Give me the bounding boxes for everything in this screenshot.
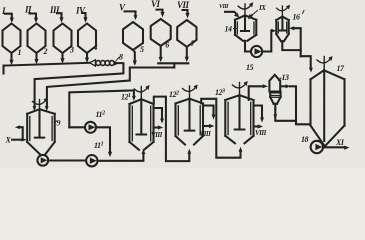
vent line of mixer 9 (15, 125, 23, 139)
wire pump15 discharge to tank 16 (262, 29, 276, 52)
agitator of reactor 12-3 (233, 81, 248, 95)
feed line IV (75, 6, 88, 23)
wire hopper6 outlet (159, 46, 163, 62)
vent VIII reactor 1 (151, 108, 164, 139)
reactor 12-1 (121, 93, 154, 150)
agitator of reactor 12-1 (134, 85, 149, 99)
wire reactor3 overflow to filter 13 (249, 84, 268, 100)
feed line VII (177, 0, 190, 18)
wire hopper2 outlet (34, 53, 38, 64)
wire reactor2 overflow to reactor3 (201, 99, 242, 158)
feed line III (49, 5, 64, 23)
wire monomer line A (33, 63, 124, 111)
wire filter bottom outlet (273, 109, 296, 121)
mixer 9 (27, 109, 60, 155)
wire collecting header (4, 63, 90, 74)
hopper 3 (54, 24, 75, 55)
vent VIII reactor 2 (200, 106, 216, 139)
wire hoppers 6-7 bar (158, 63, 188, 67)
pump 18 (301, 135, 323, 153)
feed line II (24, 5, 38, 23)
wire hopper4 outlet (85, 53, 89, 63)
wire hopper1 outlet (9, 53, 13, 65)
wire filter side outlet to tank 17 (281, 84, 311, 124)
hopper 2 (28, 24, 48, 57)
vent VIII reactor 3 (254, 106, 267, 138)
filter 13 (269, 73, 289, 109)
blend tank 17 (311, 64, 346, 146)
feed line VI (151, 0, 165, 17)
feed line I (1, 6, 14, 23)
hopper 1 (3, 24, 22, 58)
hopper 4 (78, 24, 98, 54)
wire hopper7 outlet (185, 47, 189, 62)
wire hopper5 outlet (133, 50, 137, 66)
wire hopper3 outlet (60, 53, 64, 64)
reactor 12-2 (169, 90, 203, 145)
screw mixer 8 (90, 53, 123, 67)
agitator of tank 16 (277, 5, 291, 17)
wire tank14 to pump 15 (245, 41, 251, 52)
wire pump10 to pump11 (48, 159, 86, 161)
wire feed line C to reactor 1 top (69, 90, 136, 127)
wire junction to tank 17 (301, 56, 313, 72)
feed line V (119, 3, 137, 21)
wire recycle into tank 16 (289, 26, 301, 56)
agitator of reactor 12-2 (183, 85, 198, 99)
wire tank16 outlet (282, 41, 300, 50)
agitator of tank 17 (317, 56, 333, 70)
blend tank 16 (276, 11, 304, 42)
reactor 12-3 (215, 88, 254, 143)
input X (5, 136, 27, 145)
pump 11-1 (86, 141, 103, 166)
hopper 7 (177, 20, 196, 48)
pump 11-2 (85, 110, 105, 133)
hopper 6 (151, 19, 171, 50)
wire reactor1 overflow to reactor2 (154, 97, 191, 162)
input IX (248, 4, 266, 19)
pump 10 (37, 155, 48, 166)
catalyst tank 14 (225, 15, 257, 40)
agitator of mixer 9 (33, 98, 48, 110)
wire pump 11-2 discharge (96, 127, 112, 157)
wire riser to pump 11-2 (69, 126, 85, 128)
input VIII (219, 4, 239, 17)
output XI (323, 138, 350, 150)
hopper 5 (123, 22, 144, 54)
wire hoppers 5-7 to mixer line B (45, 68, 175, 112)
agitator of tank 14 (238, 2, 253, 15)
pump 15 (246, 46, 262, 72)
wire pump11 discharge to reactor 1 (98, 149, 146, 161)
